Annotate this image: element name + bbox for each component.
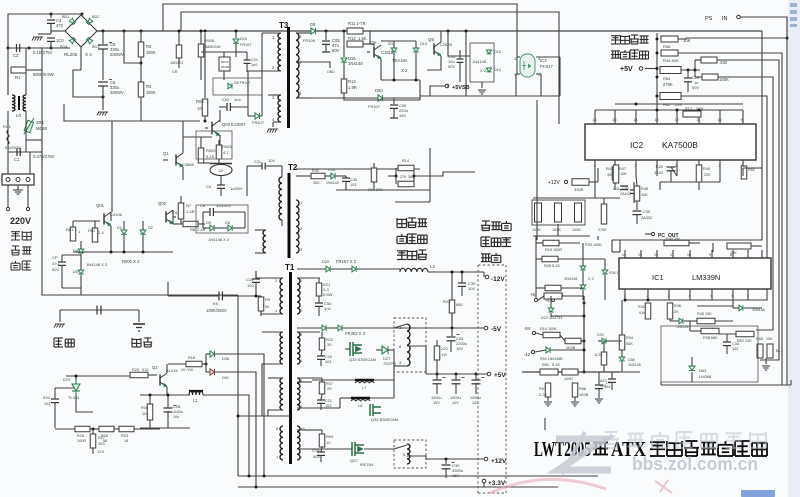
wire [540,74,542,96]
wire [198,223,205,225]
wire [262,70,281,72]
wire box [470,43,494,82]
svg-text:47u: 47u [52,261,59,266]
wire [516,73,520,75]
svg-text:AZ7: AZ7 [600,379,607,383]
wire [533,235,590,237]
junction [624,299,627,302]
svg-text:L1: L1 [193,398,198,403]
svg-text:CP: CP [52,255,58,260]
wire opto feedback [536,100,538,240]
svg-text:R40: R40 [312,169,319,173]
wire [297,381,312,383]
wire [237,295,239,476]
ground hot [54,324,65,328]
ground cold [133,323,145,325]
wire [694,60,696,70]
wire [182,167,184,180]
terminal +5V [487,372,491,376]
wire [112,120,200,122]
svg-text:910: 910 [142,368,148,372]
wire [621,300,623,335]
capacitor C42 [595,385,603,389]
capacitor C50 [315,303,323,306]
wire [436,383,438,394]
wire [611,372,613,379]
wire [92,429,94,434]
svg-text:R42: R42 [638,305,645,309]
svg-text:103: 103 [44,402,50,406]
wire [611,382,613,390]
svg-text:1K0: 1K0 [98,442,105,446]
wire [574,397,576,401]
svg-text:KA7500B: KA7500B [662,140,698,150]
svg-text:100K: 100K [564,377,573,381]
svg-text:CR: CR [172,70,178,74]
svg-text:8: 8 [730,253,732,257]
wire [370,43,374,45]
diode D7 [255,113,260,119]
wire [50,23,52,31]
wire feedback A [163,4,517,57]
label leng-di [132,338,141,347]
inductor L6 [351,397,370,400]
capacitor C0 [217,185,225,188]
wire [581,340,584,342]
capacitor C34 [51,399,59,403]
wire [415,53,417,80]
capacitor C9 [219,292,222,301]
junction [698,109,701,112]
resistor R29 [544,293,562,299]
output choke box [394,318,426,372]
resistor R48 [634,186,640,201]
wire box outline2 [196,205,248,233]
MOSFET Q34 [370,404,381,416]
wire [236,51,247,53]
svg-text:-5V: -5V [524,326,531,331]
capacitor C01 [244,60,251,63]
svg-text:R25: R25 [77,434,84,438]
wire pin 14 [635,110,637,124]
wire [580,258,605,260]
resistor R1 [11,67,26,73]
svg-text:330R: 330R [574,187,584,192]
wire [670,320,679,322]
svg-text:R8: R8 [190,227,196,232]
wire [373,182,375,190]
svg-text:200WV: 200WV [110,52,124,57]
svg-text:102: 102 [732,347,738,351]
capacitor C33 [723,342,731,346]
wire right bus 2b [786,17,788,38]
svg-text:PC817: PC817 [540,64,553,69]
svg-text:10: 10 [326,440,331,445]
svg-text:R9: R9 [265,297,271,302]
wire [223,71,225,80]
svg-text:K34: K34 [43,396,50,400]
svg-text:D2: D2 [148,226,153,230]
wire [102,31,104,44]
wire [220,176,222,185]
junction [343,30,346,33]
wire [621,362,623,372]
wire pin 11 [698,110,700,124]
svg-text:2: 2 [647,294,649,298]
ground [595,399,603,403]
wire [373,44,375,46]
svg-text:680K/0.5W: 680K/0.5W [33,72,54,77]
wire [266,165,282,167]
svg-text:13: 13 [638,253,642,257]
wire [426,458,484,460]
svg-text:10V: 10V [452,401,459,405]
wire [180,196,182,203]
junction [475,373,478,376]
wire [220,188,222,196]
wire [297,327,322,329]
wire [306,175,311,177]
wire [320,359,322,366]
svg-text:FR302 X 2: FR302 X 2 [345,331,366,336]
svg-text:C11: C11 [254,159,262,164]
svg-text:50V: 50V [448,64,455,69]
svg-text:C3866: C3866 [182,162,195,167]
wire [451,272,453,300]
wire [343,327,484,329]
svg-text:R18: R18 [188,356,195,360]
wire [235,44,237,57]
T1 sec winding c [297,378,300,410]
wire tap [296,62,330,68]
inductor L1 [189,391,203,395]
svg-text:10u/50V: 10u/50V [216,203,231,208]
wire [413,168,415,184]
svg-text:D08: D08 [222,357,229,361]
wire [316,30,344,32]
svg-text:C33: C33 [732,342,739,346]
svg-text:1N4148: 1N4148 [348,61,363,66]
capacitor C05 [322,41,330,44]
choke L0 winding b [23,95,26,111]
junction [50,13,53,16]
wire [436,374,438,380]
wire [182,121,184,153]
wire [123,235,125,252]
diode D36 [739,305,743,311]
wire [260,115,262,117]
resistor R51 [727,243,751,249]
capacitor CY [97,306,101,315]
junction [248,475,251,478]
svg-text:1N4148: 1N4148 [752,308,765,312]
wire tap [407,345,426,347]
capacitor C1 [17,148,20,156]
resistor R04 [371,168,377,182]
resistor KZ1 [316,283,322,296]
junction [102,30,105,33]
svg-text:1u/50V: 1u/50V [230,186,243,191]
diode D27 [382,346,388,354]
zener D38 [619,357,625,361]
wire [625,299,748,301]
junction [445,458,448,461]
wire [381,79,420,81]
wire [669,319,671,321]
wire [383,97,420,99]
diode D08 [210,351,215,357]
wire [660,181,720,183]
wire [178,31,180,45]
watermark Z [556,432,611,474]
svg-text:1-4R: 1-4R [186,209,195,214]
wire [483,272,485,277]
wire [205,354,207,364]
wire [256,277,283,279]
DC output interface box [478,265,506,493]
svg-text:1n0: 1n0 [324,306,331,311]
junction [583,302,586,305]
svg-text:Q34 B30SC6M: Q34 B30SC6M [371,417,398,422]
wire [168,363,186,365]
resistor R64 [660,67,681,74]
svg-text:15: 15 [613,118,617,122]
bridge diode BD4 [69,37,76,44]
wire [589,181,598,183]
capacitor C30 [442,465,451,469]
output choke winding 2 [407,444,410,464]
shunt reg TL431 [72,380,80,396]
wire [7,70,9,95]
wire [393,53,395,80]
resistor R8 [183,221,198,227]
svg-text:5-1K: 5-1K [206,154,215,159]
svg-text:1N4148: 1N4148 [472,59,487,64]
svg-text:R49: R49 [703,167,710,171]
wire [718,76,773,78]
svg-text:7: 7 [747,294,749,298]
wire ladder bus [656,33,658,110]
svg-text:D20: D20 [322,259,330,264]
resistor R18 [186,361,202,367]
wire pin [640,250,642,258]
wire [560,335,565,341]
wire [461,272,463,283]
wire box outline [196,131,232,159]
wire AC top [8,14,82,48]
junction [28,47,31,50]
wire [246,63,248,72]
wire [167,282,169,296]
resistor R46 [667,303,673,319]
svg-text:10: 10 [687,253,691,257]
svg-text:R12: R12 [685,107,692,111]
wire [536,287,545,289]
wire pin 12 [676,110,678,124]
svg-text:18: 18 [124,439,128,443]
output choke box 2 [394,440,426,468]
svg-text:270K: 270K [663,82,673,87]
wire bottom sense bus [522,371,620,373]
wire [558,258,580,260]
wire [633,182,635,190]
wire [598,372,600,385]
resistor R2 [138,42,144,57]
wire [26,139,42,141]
wire [447,85,449,87]
svg-text:10: 10 [718,118,722,122]
svg-text:R14: R14 [402,159,409,163]
wire [29,152,31,174]
wire [597,168,599,182]
resistor R7 [178,203,184,219]
wire [173,223,183,225]
wire [248,115,255,117]
wire [59,310,61,322]
terminal AC L [6,207,9,210]
wire [395,201,430,203]
wire [790,380,792,385]
svg-text:1A: 1A [218,168,223,173]
wire [451,313,453,328]
resistor R02 [92,228,98,242]
wire [394,324,407,328]
wire [206,353,210,355]
wire [73,220,100,222]
wire [50,14,52,18]
terminal -12V [485,275,489,279]
svg-text:C2B: C2B [173,405,181,409]
wire [255,271,257,279]
svg-text:+5V: +5V [620,66,633,73]
wire [202,212,204,228]
resistor R13 [341,79,347,93]
wire [215,372,256,487]
wire pin [624,250,626,258]
svg-text:100K/250V: 100K/250V [206,308,227,313]
svg-text:RL205: RL205 [64,52,78,57]
transformer T3 core [287,27,290,128]
wire [515,74,517,96]
capacitor C39 [458,283,466,286]
capacitor C11 [262,163,265,170]
svg-text:-5V: -5V [491,326,502,333]
svg-text:1: 1 [624,294,626,298]
svg-text:BL1: BL1 [776,349,783,353]
wire pin 9 [742,110,744,124]
wire sense bus [583,296,585,372]
svg-text:PS: PS [705,16,713,22]
junction [447,30,450,33]
resistor R22s [319,338,325,350]
wire [394,365,407,367]
junction [123,30,126,33]
resistor R40b [311,173,325,179]
wire [7,111,9,130]
svg-text:56: 56 [265,304,270,309]
svg-text:R02: R02 [88,228,96,233]
wire [719,176,721,182]
wire [318,278,320,283]
ground [544,402,552,406]
svg-text:104: 104 [468,286,475,291]
wire [685,38,687,39]
svg-text:+5VSB: +5VSB [452,85,470,91]
resistor R25b [434,346,440,360]
wire [318,296,320,303]
resistor R34 [619,335,625,350]
wire [712,243,714,252]
wire [370,397,394,399]
junction [656,76,659,79]
svg-text:D4: D4 [73,249,78,253]
wire [596,371,640,373]
svg-text:D5: D5 [73,270,78,274]
svg-text:16V: 16V [399,113,406,118]
wire pin [732,289,734,300]
thermistor ZR1 [24,118,34,134]
wire [336,189,430,191]
svg-text:0.1E/275V: 0.1E/275V [33,50,53,55]
svg-text:ZR1: ZR1 [36,120,45,125]
wire right bus 6 [681,96,767,300]
svg-text:R26 5-1K: R26 5-1K [544,264,561,268]
wire [544,418,546,430]
wire [200,31,202,44]
wire [62,287,81,289]
svg-text:D1: D1 [117,226,122,230]
wire [321,332,323,338]
diode D6 [228,225,232,231]
resistor R37 [601,352,607,365]
wire [407,456,426,459]
wire [393,98,395,104]
wire [110,226,112,252]
svg-text:T1: T1 [285,263,295,272]
svg-text:5: 5 [676,164,678,168]
svg-text:R58: R58 [579,387,586,391]
choke L0 core [18,96,20,110]
svg-text:16: 16 [593,118,597,122]
resistor R08 [147,404,153,420]
svg-text:+12V: +12V [548,180,560,186]
svg-text:C31: C31 [613,187,620,191]
junction [178,30,181,33]
svg-text:100R: 100R [77,439,86,443]
svg-text:C10: C10 [246,277,254,282]
junction [415,79,418,82]
T1 sec winding a [297,278,300,314]
capacitor C37 [472,380,481,384]
diode D33 [602,338,606,344]
capacitor C31 [630,190,638,193]
capacitor C40 [457,59,464,62]
wire [281,166,283,177]
resistor R62 [660,93,681,100]
wire [38,33,51,35]
svg-text:R20: R20 [132,368,139,372]
wire [687,70,689,78]
resistor R58 [661,36,678,42]
svg-text:10K: 10K [607,173,614,177]
inductor L7 [355,379,374,382]
wire [393,366,395,398]
wire [7,70,9,95]
junction [235,30,238,33]
wire [671,167,677,176]
svg-text:50K: 50K [626,342,633,346]
wire pin 16 [594,110,596,124]
